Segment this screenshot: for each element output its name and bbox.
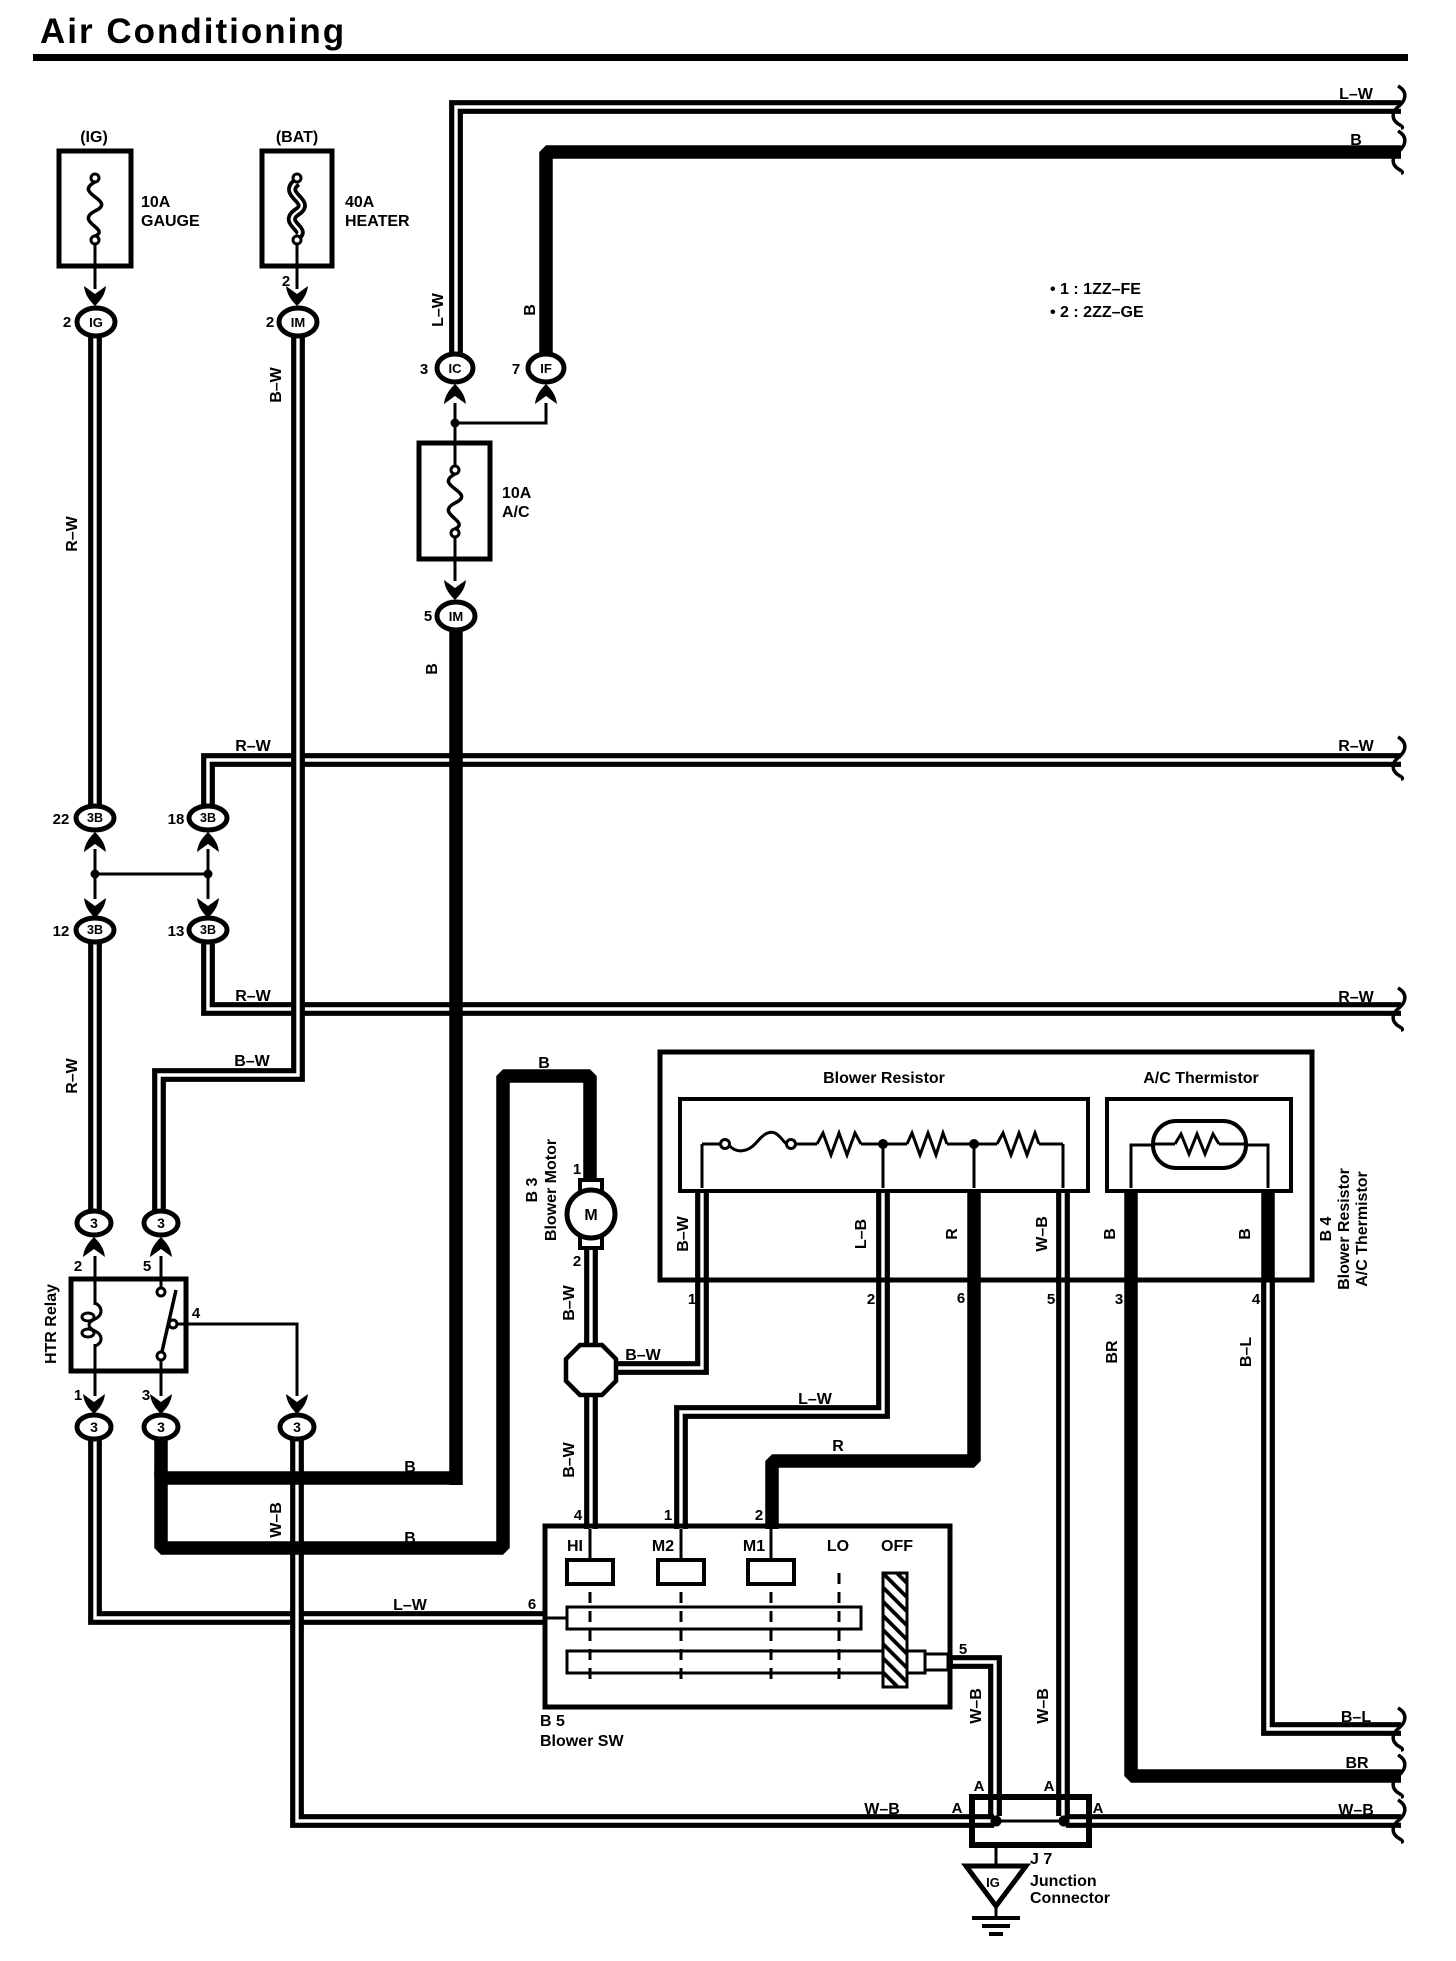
svg-text:3B: 3B xyxy=(87,923,103,937)
svg-text:R: R xyxy=(944,1228,961,1240)
svg-text:4: 4 xyxy=(1252,1291,1261,1308)
svg-text:W–B: W–B xyxy=(1338,1802,1374,1819)
svg-text:HTR Relay: HTR Relay xyxy=(43,1284,60,1364)
svg-text:W–B: W–B xyxy=(1035,1688,1052,1724)
svg-text:L–W: L–W xyxy=(1339,86,1374,103)
svg-text:W–B: W–B xyxy=(1034,1216,1051,1252)
svg-text:Connector: Connector xyxy=(1030,1890,1110,1907)
svg-text:6: 6 xyxy=(528,1596,536,1613)
svg-text:4: 4 xyxy=(574,1507,583,1524)
svg-text:B 4: B 4 xyxy=(1318,1216,1335,1241)
svg-text:B–W: B–W xyxy=(268,366,285,402)
svg-text:B: B xyxy=(538,1055,550,1072)
svg-text:3: 3 xyxy=(1115,1291,1123,1308)
svg-text:B–L: B–L xyxy=(1341,1709,1371,1726)
svg-text:A/C Thermistor: A/C Thermistor xyxy=(1143,1070,1259,1087)
svg-text:IC: IC xyxy=(449,361,463,376)
svg-text:Air Conditioning: Air Conditioning xyxy=(40,12,346,51)
svg-text:B: B xyxy=(404,1530,416,1547)
svg-text:B–W: B–W xyxy=(561,1284,578,1320)
svg-text:5: 5 xyxy=(959,1641,967,1658)
svg-text:2: 2 xyxy=(282,273,290,290)
svg-text:2: 2 xyxy=(63,314,71,331)
svg-text:22: 22 xyxy=(53,811,70,828)
svg-text:40A: 40A xyxy=(345,194,375,211)
svg-text:10A: 10A xyxy=(502,485,532,502)
svg-text:3: 3 xyxy=(90,1215,98,1231)
svg-text:W–B: W–B xyxy=(968,1688,985,1724)
svg-text:L–W: L–W xyxy=(430,292,447,327)
svg-text:HI: HI xyxy=(567,1538,583,1555)
svg-text:2: 2 xyxy=(755,1507,763,1524)
svg-text:BR: BR xyxy=(1345,1755,1369,1772)
svg-text:2: 2 xyxy=(266,314,274,331)
svg-text:10A: 10A xyxy=(141,194,171,211)
svg-text:L–B: L–B xyxy=(853,1219,870,1249)
svg-text:3B: 3B xyxy=(200,811,216,825)
svg-text:IM: IM xyxy=(291,315,305,330)
svg-text:6: 6 xyxy=(957,1290,965,1307)
svg-text:1: 1 xyxy=(573,1161,581,1178)
svg-text:J 7: J 7 xyxy=(1030,1851,1052,1868)
svg-text:13: 13 xyxy=(168,923,185,940)
svg-text:5: 5 xyxy=(424,608,432,625)
svg-text:1: 1 xyxy=(664,1507,672,1524)
svg-text:(BAT): (BAT) xyxy=(276,129,318,146)
svg-text:IG: IG xyxy=(986,1875,1000,1890)
svg-text:R: R xyxy=(832,1438,844,1455)
svg-text:A: A xyxy=(974,1778,985,1795)
svg-text:M2: M2 xyxy=(652,1538,674,1555)
svg-text:M1: M1 xyxy=(743,1538,765,1555)
svg-text:B–W: B–W xyxy=(625,1347,661,1364)
svg-text:GAUGE: GAUGE xyxy=(141,213,200,230)
svg-text:A: A xyxy=(1093,1800,1104,1817)
svg-text:L–W: L–W xyxy=(798,1391,833,1408)
svg-text:3: 3 xyxy=(293,1419,301,1435)
svg-text:R–W: R–W xyxy=(1338,989,1374,1006)
svg-text:(IG): (IG) xyxy=(80,129,108,146)
svg-text:IM: IM xyxy=(449,609,463,624)
svg-text:Blower Resistor: Blower Resistor xyxy=(1336,1168,1353,1290)
svg-text:A/C Thermistor: A/C Thermistor xyxy=(1354,1171,1371,1287)
svg-text:L–W: L–W xyxy=(393,1597,428,1614)
svg-text:IF: IF xyxy=(540,361,552,376)
svg-text:BR: BR xyxy=(1104,1340,1121,1364)
svg-text:B: B xyxy=(424,663,441,675)
svg-text:3B: 3B xyxy=(87,811,103,825)
svg-text:R–W: R–W xyxy=(1338,738,1374,755)
svg-text:Blower Resistor: Blower Resistor xyxy=(823,1070,945,1087)
svg-text:B–L: B–L xyxy=(1238,1337,1255,1367)
svg-text:M: M xyxy=(584,1207,597,1224)
svg-text:OFF: OFF xyxy=(881,1538,913,1555)
svg-text:B: B xyxy=(1237,1228,1254,1240)
svg-text:3: 3 xyxy=(157,1419,165,1435)
svg-text:B 3: B 3 xyxy=(524,1177,541,1202)
svg-text:Junction: Junction xyxy=(1030,1873,1097,1890)
svg-text:A/C: A/C xyxy=(502,504,530,521)
svg-text:IG: IG xyxy=(89,315,103,330)
svg-text:R–W: R–W xyxy=(64,515,81,551)
svg-text:R–W: R–W xyxy=(64,1057,81,1093)
svg-text:R–W: R–W xyxy=(235,738,271,755)
svg-text:B: B xyxy=(1350,132,1362,149)
svg-text:B 5: B 5 xyxy=(540,1713,565,1730)
svg-text:3: 3 xyxy=(157,1215,165,1231)
svg-text:2: 2 xyxy=(74,1258,82,1275)
svg-text:B: B xyxy=(404,1459,416,1476)
svg-text:HEATER: HEATER xyxy=(345,213,410,230)
svg-text:R–W: R–W xyxy=(235,988,271,1005)
svg-text:2: 2 xyxy=(867,1291,875,1308)
svg-text:5: 5 xyxy=(1047,1291,1055,1308)
svg-text:3: 3 xyxy=(142,1387,150,1404)
svg-text:B: B xyxy=(1102,1228,1119,1240)
svg-text:18: 18 xyxy=(168,811,185,828)
svg-text:B–W: B–W xyxy=(234,1053,270,1070)
svg-text:3: 3 xyxy=(90,1419,98,1435)
svg-text:4: 4 xyxy=(192,1305,201,1322)
svg-text:A: A xyxy=(1044,1778,1055,1795)
svg-text:1: 1 xyxy=(688,1291,696,1308)
svg-text:3: 3 xyxy=(420,361,428,378)
svg-text:W–B: W–B xyxy=(864,1801,900,1818)
svg-text:2: 2 xyxy=(573,1253,581,1270)
svg-text:B–W: B–W xyxy=(561,1441,578,1477)
svg-text:Blower SW: Blower SW xyxy=(540,1733,624,1750)
svg-text:W–B: W–B xyxy=(268,1502,285,1538)
svg-text:B–W: B–W xyxy=(675,1215,692,1251)
svg-text:• 2 : 2ZZ–GE: • 2 : 2ZZ–GE xyxy=(1050,304,1144,321)
svg-text:A: A xyxy=(952,1800,963,1817)
svg-text:5: 5 xyxy=(143,1258,151,1275)
svg-text:• 1 : 1ZZ–FE: • 1 : 1ZZ–FE xyxy=(1050,281,1141,298)
svg-text:Blower Motor: Blower Motor xyxy=(543,1139,560,1241)
svg-text:LO: LO xyxy=(827,1538,849,1555)
svg-text:12: 12 xyxy=(53,923,70,940)
svg-text:1: 1 xyxy=(74,1387,82,1404)
svg-text:B: B xyxy=(522,304,539,316)
svg-text:3B: 3B xyxy=(200,923,216,937)
svg-text:7: 7 xyxy=(512,361,520,378)
